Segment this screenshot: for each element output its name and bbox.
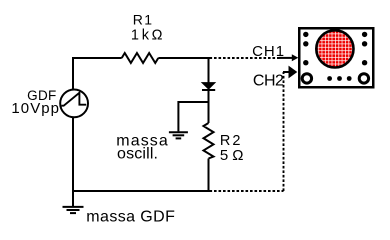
oscilloscope knob right <box>359 74 368 83</box>
wire branch vertical <box>177 101 179 131</box>
wire below R2 <box>208 159 210 193</box>
resistor R1 <box>122 53 159 63</box>
wire bottom horizontal <box>72 190 210 192</box>
wire CH2 arrow segment <box>283 71 290 73</box>
svg-text:10Vpp: 10Vpp <box>11 100 59 117</box>
dashed wire bottom to CH2 <box>210 190 284 192</box>
svg-text:R1: R1 <box>133 12 153 28</box>
wire CH1 arrow segment <box>279 57 293 59</box>
source GDF <box>60 90 88 118</box>
dashed wire CH2 vertical <box>283 72 285 191</box>
wire diode to branch <box>208 90 210 123</box>
wire top left vertical <box>72 57 74 90</box>
arrow CH2 <box>289 66 298 79</box>
svg-text:oscill.: oscill. <box>117 146 158 163</box>
oscilloscope right dots <box>362 32 367 66</box>
resistor R2 <box>204 123 214 159</box>
arrow CH1 <box>292 54 299 61</box>
oscilloscope bottom dots <box>327 76 351 81</box>
dashed wire CH1 <box>210 57 281 59</box>
wire right vertical above diode <box>208 57 210 83</box>
oscilloscope screen <box>316 30 353 67</box>
svg-text:1kΩ: 1kΩ <box>131 27 163 43</box>
diode D1 <box>202 83 215 90</box>
oscilloscope knob left <box>302 74 311 83</box>
wire top horizontal right segment <box>158 57 209 59</box>
wire left vertical below source <box>72 117 74 192</box>
oscilloscope left dots <box>303 32 308 66</box>
wire branch horizontal <box>178 101 209 103</box>
ground massa GDF <box>63 191 84 213</box>
wire top horizontal left segment <box>72 57 122 59</box>
ground massa oscill <box>169 132 188 138</box>
svg-text:massa GDF: massa GDF <box>86 208 175 225</box>
svg-text:5Ω: 5Ω <box>220 147 244 164</box>
oscilloscope body <box>299 28 373 87</box>
svg-text:CH2: CH2 <box>253 73 284 90</box>
svg-text:CH1: CH1 <box>252 43 284 60</box>
